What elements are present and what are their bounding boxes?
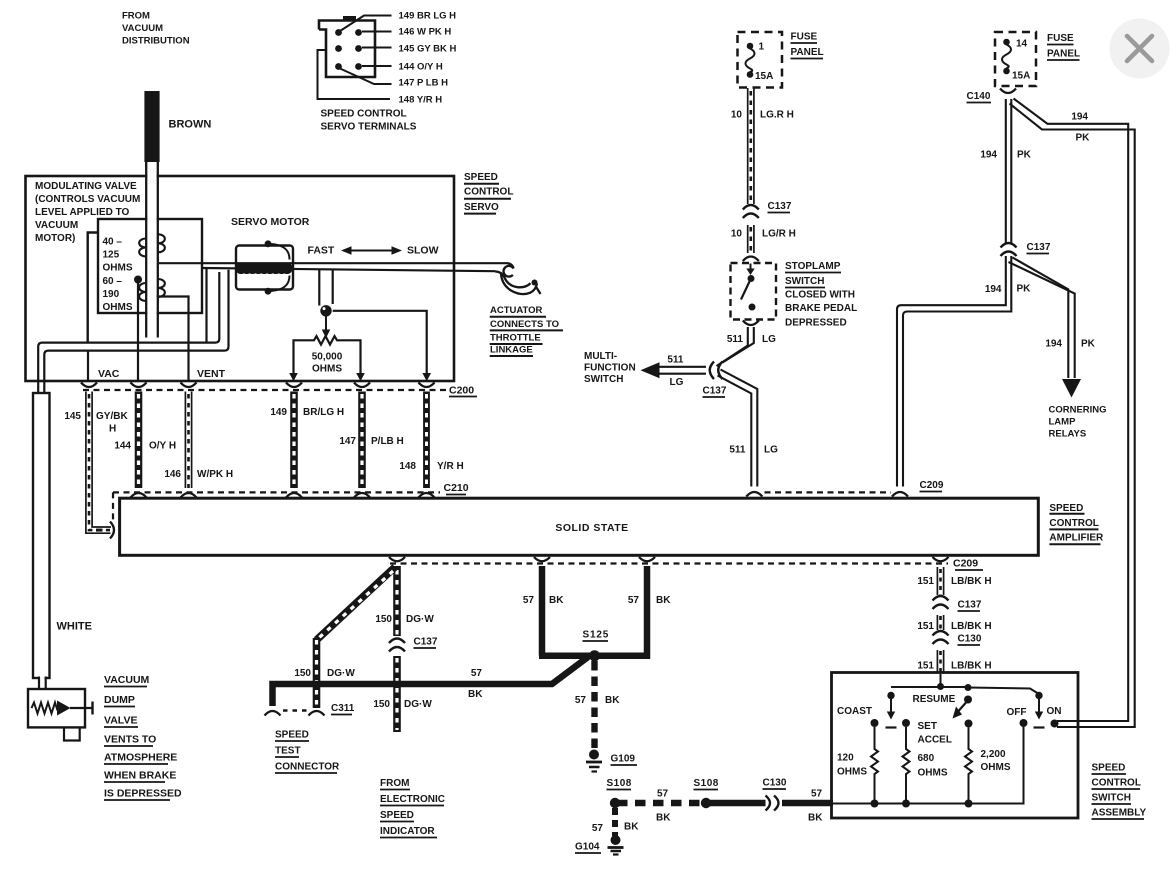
- svg-text:SERVO: SERVO: [464, 202, 499, 213]
- wire 511 LG from stoplamp: [717, 327, 754, 366]
- svg-text:SERVO MOTOR: SERVO MOTOR: [231, 216, 310, 228]
- svg-text:WHITE: WHITE: [57, 621, 92, 633]
- svg-text:57: 57: [811, 789, 823, 800]
- tick at amplifier input: [96, 529, 103, 532]
- svg-text:151: 151: [917, 661, 934, 672]
- node label FROM VACUUM DISTRIBUTION: [122, 11, 190, 47]
- label speed test connector: [275, 730, 340, 774]
- svg-text:C137: C137: [414, 637, 438, 648]
- svg-text:INDICATOR: INDICATOR: [380, 826, 435, 837]
- svg-text:SWITCH: SWITCH: [785, 276, 824, 287]
- svg-text:MULTI-: MULTI-: [584, 351, 617, 362]
- svg-text:C311: C311: [331, 703, 355, 714]
- speed control switch assembly box: [832, 673, 1079, 819]
- connector C137 inline on DG/W: [389, 639, 405, 652]
- label multifunction switch: [584, 351, 684, 388]
- speed test connector fork right: [309, 711, 325, 716]
- arrow into C200 from 50000 left: [289, 373, 298, 381]
- labels below amplifier: [294, 595, 671, 710]
- svg-text:LG: LG: [764, 445, 778, 456]
- svg-text:RESUME: RESUME: [913, 694, 956, 705]
- vacuum dump valve spring: [32, 703, 58, 714]
- wire 148 Y/R from wiper: [333, 311, 427, 374]
- wire 146 W/PK inside valve: [148, 297, 189, 382]
- svg-text:C137: C137: [1027, 242, 1051, 253]
- wire 10 LG/R H hatched upper: [748, 88, 754, 204]
- svg-text:FUSE: FUSE: [791, 32, 818, 43]
- svg-text:CONTROL: CONTROL: [1092, 778, 1141, 789]
- modulating valve outer box: [88, 233, 98, 343]
- svg-text:S108: S108: [694, 778, 719, 789]
- label speed control servo underlined: [464, 172, 513, 214]
- svg-text:2,200: 2,200: [981, 749, 1006, 760]
- svg-text:151: 151: [917, 576, 934, 587]
- wire 57 BK dashed to G104: [612, 808, 618, 836]
- wire 194 PK branch to amplifier: [897, 256, 1011, 487]
- label cornering lamp relays: [1049, 405, 1107, 440]
- svg-text:O/Y H: O/Y H: [149, 441, 176, 452]
- svg-text:OHMS: OHMS: [312, 364, 342, 375]
- arrow to multifunction switch: [641, 362, 660, 378]
- svg-text:BK: BK: [808, 813, 823, 824]
- svg-text:40 –: 40 –: [103, 237, 123, 248]
- svg-text:BK: BK: [624, 822, 639, 833]
- servo motor winding: [235, 263, 292, 274]
- svg-text:194: 194: [985, 284, 1002, 295]
- label speed control servo terminals: [321, 109, 417, 133]
- svg-text:50,000: 50,000: [312, 352, 343, 363]
- svg-text:SPEED: SPEED: [464, 172, 498, 183]
- fuse F14: [1002, 39, 1011, 75]
- svg-text:BROWN: BROWN: [169, 119, 212, 131]
- svg-text:CONTROL: CONTROL: [464, 187, 513, 198]
- svg-text:DG·W: DG·W: [404, 699, 432, 710]
- node feed dots: [887, 683, 1042, 699]
- svg-text:DUMP: DUMP: [104, 694, 135, 706]
- svg-text:SWITCH: SWITCH: [1092, 793, 1131, 804]
- wire 148 Y/R H hatched: [423, 392, 430, 489]
- svg-text:SPEED: SPEED: [1049, 503, 1083, 514]
- svg-text:PK: PK: [1081, 339, 1096, 350]
- connector C130 inline: [766, 796, 779, 811]
- labels 194 PK left: [980, 150, 1031, 161]
- svg-text:C140: C140: [967, 91, 991, 102]
- labels wire 10: [731, 110, 796, 240]
- svg-text:148 Y/R H: 148 Y/R H: [399, 95, 443, 106]
- svg-text:MOTOR): MOTOR): [35, 233, 75, 244]
- arrow fast-slow: [341, 246, 402, 255]
- close button: [1110, 19, 1170, 79]
- svg-text:C137: C137: [768, 201, 792, 212]
- modulating valve box: [98, 219, 202, 313]
- labels 511 LG upper: [727, 334, 776, 345]
- svg-text:194: 194: [1045, 339, 1062, 350]
- svg-text:145 GY BK H: 145 GY BK H: [399, 44, 457, 55]
- connector C137 inline on LG/R: [743, 205, 759, 218]
- svg-text:151: 151: [917, 621, 934, 632]
- labels 151 LB/BK: [917, 576, 991, 672]
- svg-text:146: 146: [164, 469, 181, 480]
- svg-text:BR/LG H: BR/LG H: [303, 407, 344, 418]
- svg-text:MODULATING VALVE: MODULATING VALVE: [35, 181, 137, 192]
- svg-text:RELAYS: RELAYS: [1049, 429, 1087, 440]
- svg-text:ATMOSPHERE: ATMOSPHERE: [104, 752, 177, 764]
- wire 147 P/LB H hatched: [358, 392, 366, 489]
- wiper ball: [320, 305, 331, 316]
- svg-text:60 –: 60 –: [103, 276, 123, 287]
- connector C200 dashed line: [83, 389, 446, 391]
- svg-text:148: 148: [399, 461, 416, 472]
- svg-text:145: 145: [64, 411, 81, 422]
- vacuum hose to servo white gap: [204, 265, 450, 267]
- terminal fork into amplifier: [110, 522, 114, 539]
- svg-text:OFF: OFF: [1007, 707, 1027, 718]
- wire to wiper ball left: [318, 269, 320, 305]
- wire 57 BK long run: [273, 657, 589, 706]
- svg-text:10: 10: [731, 229, 743, 240]
- speed test connector fork left: [265, 711, 281, 716]
- svg-text:LB/BK H: LB/BK H: [951, 621, 992, 632]
- connector J1 pins: [335, 29, 362, 70]
- wire 57 BK to C130: [706, 800, 766, 806]
- svg-text:FROM: FROM: [122, 11, 150, 22]
- svg-text:BK: BK: [468, 689, 483, 700]
- labels 194 PK cornering: [1045, 339, 1095, 350]
- svg-text:PANEL: PANEL: [1047, 49, 1080, 60]
- label vacuum dump valve block: [104, 674, 182, 800]
- svg-text:125: 125: [103, 250, 120, 261]
- resistor 2200 ohms: [965, 728, 972, 804]
- svg-text:VACUUM: VACUUM: [35, 220, 78, 231]
- svg-text:LB/BK H: LB/BK H: [951, 576, 992, 587]
- svg-text:LINKAGE: LINKAGE: [490, 345, 533, 356]
- vacuum hose to VAC port inner: [44, 270, 228, 392]
- svg-text:194: 194: [980, 150, 997, 161]
- wire 194 PK branch to far right: [1010, 99, 1135, 728]
- svg-text:STOPLAMP: STOPLAMP: [785, 261, 841, 272]
- svg-text:147 P LB H: 147 P LB H: [399, 78, 449, 89]
- svg-text:OHMS: OHMS: [103, 263, 133, 274]
- svg-text:S108: S108: [607, 778, 632, 789]
- svg-text:LG/R H: LG/R H: [762, 229, 796, 240]
- wire 150 DG/W diagonal branch: [317, 567, 396, 640]
- svg-text:OHMS: OHMS: [103, 302, 133, 313]
- svg-text:ASSEMBLY: ASSEMBLY: [1092, 808, 1147, 819]
- svg-text:LB/BK H: LB/BK H: [951, 661, 992, 672]
- svg-text:57: 57: [575, 695, 587, 706]
- node S125 junction dot: [589, 650, 600, 661]
- wire 57 BK dashed to G109: [591, 661, 597, 750]
- label speed control amplifier: [1049, 503, 1104, 544]
- svg-text:BK: BK: [605, 695, 620, 706]
- wire labels C200 row: [64, 407, 463, 480]
- svg-text:LG: LG: [762, 334, 776, 345]
- wire switch bottom bus: [833, 727, 1024, 804]
- svg-text:C209: C209: [920, 480, 944, 491]
- node bottom bus dots: [871, 800, 973, 808]
- vacuum line vent riser: [205, 268, 207, 342]
- terminal forks at C210: [131, 493, 435, 498]
- terminal fork 511 at C209: [746, 492, 762, 497]
- svg-text:ACTUATOR: ACTUATOR: [490, 305, 543, 316]
- svg-text:VACUUM: VACUUM: [104, 674, 150, 686]
- wire pin leads to terminal list: [318, 16, 392, 100]
- svg-text:VACUUM: VACUUM: [122, 23, 163, 34]
- connector C137 junction multifunction: [710, 362, 723, 380]
- svg-text:DISTRIBUTION: DISTRIBUTION: [122, 36, 190, 47]
- labels 194 PK right top: [1071, 112, 1090, 144]
- svg-text:1: 1: [759, 42, 765, 53]
- wire 194 PK vertical pair C140 to C137: [1006, 99, 1012, 244]
- svg-text:144 O/Y H: 144 O/Y H: [399, 62, 443, 73]
- svg-text:C130: C130: [958, 634, 982, 645]
- arrow to cornering lamp relays: [1062, 379, 1081, 398]
- svg-text:PK: PK: [1017, 284, 1032, 295]
- svg-text:OHMS: OHMS: [981, 762, 1011, 773]
- svg-text:C137: C137: [703, 386, 727, 397]
- svg-text:14: 14: [1016, 39, 1028, 50]
- svg-text:LEVEL APPLIED TO: LEVEL APPLIED TO: [35, 207, 129, 218]
- svg-text:PK: PK: [1017, 150, 1032, 161]
- svg-text:SET: SET: [918, 721, 937, 732]
- label actuator connects to throttle linkage: [490, 305, 563, 356]
- wire switch feed bus: [891, 687, 1039, 694]
- svg-text:PANEL: PANEL: [791, 47, 824, 58]
- svg-text:SPEED: SPEED: [380, 810, 414, 821]
- fuse F1: [746, 43, 755, 78]
- resistor 50000 ohms box with zigzag: [294, 336, 361, 374]
- actuator tip: [532, 280, 541, 295]
- node S108 junction dot: [610, 798, 620, 808]
- wire 144 O/Y inside valve: [137, 280, 139, 382]
- wire 10 LG/R H hatched lower: [748, 225, 754, 253]
- vacuum dump valve body: [28, 689, 85, 727]
- svg-text:SPEED: SPEED: [1092, 763, 1126, 774]
- svg-text:G104: G104: [575, 842, 600, 853]
- vacuum dump valve plunger arrow: [57, 701, 71, 716]
- node S108 second dot: [701, 798, 711, 808]
- svg-text:IS DEPRESSED: IS DEPRESSED: [104, 788, 182, 800]
- terminal forks at C200: [81, 383, 435, 388]
- labels switch assembly inner: [837, 694, 1062, 779]
- wire 146 W/PK H hatched: [185, 392, 191, 489]
- wire 511 LG down to C209: [718, 370, 758, 487]
- terminal fork 194 at C209: [892, 492, 908, 497]
- wire 149 BR/LG H hatched: [290, 392, 298, 489]
- svg-text:57: 57: [523, 595, 535, 606]
- switch on-off arm: [1034, 699, 1045, 728]
- svg-text:WHEN BRAKE: WHEN BRAKE: [104, 770, 176, 782]
- fuse panel 2 dashed box: [995, 32, 1036, 86]
- wire 144 O/Y H hatched: [135, 392, 143, 489]
- svg-text:VENTS TO: VENTS TO: [104, 734, 156, 746]
- svg-text:ON: ON: [1047, 706, 1062, 717]
- ground G109: [586, 750, 602, 772]
- svg-text:C130: C130: [763, 778, 787, 789]
- wire 194 PK branch to cornering relays: [1009, 258, 1075, 379]
- svg-text:OHMS: OHMS: [918, 768, 948, 779]
- svg-text:SERVO TERMINALS: SERVO TERMINALS: [321, 122, 417, 133]
- svg-text:G109: G109: [611, 754, 636, 765]
- connector C209 dashed line upper: [765, 491, 892, 493]
- svg-text:BK: BK: [656, 813, 671, 824]
- vacuum tube brown: [144, 91, 159, 338]
- connector C137 inline on 151: [933, 596, 949, 609]
- svg-text:C137: C137: [958, 600, 982, 611]
- labels grounds and splices: [575, 754, 823, 853]
- svg-text:511: 511: [729, 445, 746, 456]
- wire 151 entry into switch: [940, 674, 942, 687]
- svg-text:149: 149: [270, 407, 287, 418]
- vacuum dump valve outlet tab: [64, 727, 80, 740]
- switch coast contact arm: [886, 699, 897, 728]
- stoplamp switch contacts: [741, 264, 756, 311]
- svg-text:COAST: COAST: [837, 706, 872, 717]
- svg-text:DG·W: DG·W: [406, 614, 434, 625]
- arrow into C200 from wiper wire: [422, 373, 431, 381]
- vacuum tube white: [33, 393, 50, 678]
- dotted link speed test connector: [283, 709, 309, 712]
- svg-text:BRAKE PEDAL: BRAKE PEDAL: [785, 303, 857, 314]
- svg-text:57: 57: [657, 789, 669, 800]
- label fuse panel 2: [1012, 33, 1080, 82]
- svg-text:120: 120: [837, 753, 854, 764]
- svg-text:CONNECTOR: CONNECTOR: [275, 762, 340, 773]
- tube neck bottom: [39, 676, 46, 690]
- svg-text:147: 147: [339, 436, 356, 447]
- svg-text:VENT: VENT: [197, 368, 226, 380]
- svg-text:DG·W: DG·W: [327, 668, 355, 679]
- svg-text:150: 150: [375, 614, 392, 625]
- svg-text:511: 511: [667, 355, 684, 366]
- svg-text:SPEED: SPEED: [275, 730, 309, 741]
- label fuse panel 1: [755, 32, 824, 83]
- svg-text:VAC: VAC: [98, 368, 120, 380]
- svg-text:15A: 15A: [755, 71, 773, 82]
- coil upper solenoid 40-125 ohms: [139, 234, 165, 256]
- servo motor body: [236, 246, 293, 290]
- vacuum hose to VAC port outer: [38, 272, 219, 392]
- wire to wiper ball right: [332, 270, 334, 305]
- wire 150 DG/W down to C311: [313, 638, 321, 708]
- svg-text:(CONTROLS VACUUM: (CONTROLS VACUUM: [35, 194, 140, 205]
- svg-text:LG.R H: LG.R H: [760, 110, 794, 121]
- connector J1 speed control servo terminals body: [319, 16, 375, 77]
- wire 145 GY/BK H hatched with elbow: [86, 392, 111, 534]
- svg-text:15A: 15A: [1012, 71, 1030, 82]
- node S125 bus bar: [539, 652, 650, 659]
- fuse panel 1 dashed box: [738, 32, 783, 88]
- svg-text:DEPRESSED: DEPRESSED: [785, 318, 847, 329]
- svg-text:Y/R H: Y/R H: [437, 461, 464, 472]
- vacuum hose to servo upper line: [159, 262, 507, 264]
- svg-text:FUSE: FUSE: [1047, 33, 1074, 44]
- actuator hook curl: [495, 263, 537, 294]
- resistor 680 ohms: [903, 727, 910, 804]
- svg-text:OHMS: OHMS: [837, 767, 867, 778]
- vacuum dump valve stem tee: [91, 702, 93, 715]
- svg-text:150: 150: [373, 699, 390, 710]
- svg-text:149 BR LG H: 149 BR LG H: [399, 11, 457, 22]
- svg-text:PK: PK: [1076, 133, 1091, 144]
- svg-text:680: 680: [918, 753, 935, 764]
- vacuum dump valve stem: [70, 707, 92, 709]
- switch contact dots: [871, 719, 1059, 728]
- wire 57 BK dashed S108 run: [617, 800, 706, 806]
- connector C210 dashed line: [113, 492, 440, 522]
- svg-text:194: 194: [1071, 112, 1088, 123]
- wire 150 DG/W below C137: [393, 656, 401, 732]
- stoplamp switch dashed box: [731, 263, 777, 320]
- svg-text:SOLID STATE: SOLID STATE: [555, 522, 628, 534]
- svg-text:146 W PK H: 146 W PK H: [399, 27, 452, 38]
- svg-text:GY/BK: GY/BK: [96, 411, 128, 422]
- wire 57 BK vertical pair from amplifier: [542, 566, 647, 659]
- svg-text:W/PK H: W/PK H: [197, 469, 233, 480]
- svg-text:SLOW: SLOW: [407, 245, 439, 257]
- svg-text:CORNERING: CORNERING: [1049, 405, 1107, 416]
- pin labels 149-148: [399, 11, 457, 106]
- node junction dot valve: [134, 276, 142, 284]
- svg-text:144: 144: [114, 441, 131, 452]
- label speed control switch assembly: [1092, 763, 1147, 820]
- resistor 120 ohms: [871, 727, 878, 804]
- svg-text:AMPLIFIER: AMPLIFIER: [1049, 533, 1104, 544]
- svg-text:BK: BK: [549, 595, 564, 606]
- servo motor terminals: [265, 240, 290, 294]
- svg-text:57: 57: [628, 595, 640, 606]
- terminal forks below amplifier: [389, 557, 949, 561]
- terminal fork below C140: [1000, 89, 1016, 94]
- svg-text:150: 150: [294, 668, 311, 679]
- svg-text:LAMP: LAMP: [1049, 417, 1077, 428]
- labels 511 LG lower: [729, 445, 778, 456]
- svg-text:C209: C209: [953, 558, 978, 570]
- arrow into C200 from 50000 right: [356, 373, 365, 381]
- svg-text:THROTTLE: THROTTLE: [490, 333, 541, 344]
- label stoplamp switch: [785, 261, 857, 329]
- ground G104: [608, 835, 624, 855]
- wire 151 LB/BK column: [937, 567, 943, 595]
- svg-text:CONTROL: CONTROL: [1049, 518, 1098, 529]
- svg-text:57: 57: [592, 823, 604, 834]
- labels servo area: [35, 119, 439, 381]
- svg-text:P/LB H: P/LB H: [371, 436, 404, 447]
- wire 145 GY/BK inside valve: [87, 351, 89, 381]
- svg-text:57: 57: [471, 668, 483, 679]
- connector C209 dashed line below amplifier: [390, 562, 948, 564]
- svg-text:CONNECTS TO: CONNECTS TO: [490, 319, 559, 330]
- svg-text:SPEED CONTROL: SPEED CONTROL: [321, 109, 407, 120]
- svg-text:LG: LG: [670, 377, 684, 388]
- svg-text:FAST: FAST: [308, 245, 335, 257]
- labels 194 PK mid: [985, 284, 1031, 296]
- svg-text:VALVE: VALVE: [104, 715, 137, 727]
- svg-text:FROM: FROM: [380, 778, 409, 789]
- svg-text:190: 190: [103, 289, 120, 300]
- svg-text:10: 10: [731, 110, 743, 121]
- terminal fork below stoplamp switch: [743, 321, 759, 326]
- wiper arrow: [322, 316, 331, 338]
- svg-text:BK: BK: [656, 595, 671, 606]
- speed control servo box: [26, 176, 455, 381]
- connector C137 inline on 194: [1001, 243, 1017, 256]
- terminal fork into stoplamp switch: [743, 257, 759, 262]
- svg-text:CLOSED WITH: CLOSED WITH: [785, 290, 855, 301]
- label from electronic speed indicator: [380, 778, 445, 838]
- connector C130 inline on 151: [933, 631, 949, 644]
- wire 150 DG/W vertical from amplifier: [393, 566, 401, 636]
